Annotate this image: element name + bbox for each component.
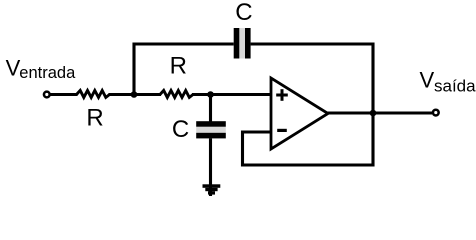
label Ventrada (6, 56, 76, 83)
svg-text:R: R (170, 53, 187, 80)
op-amp U1 (271, 78, 328, 149)
wire node A up (132, 43, 135, 95)
resistor R1 (77, 90, 110, 97)
pin plus (276, 89, 288, 101)
svg-text:R: R (86, 105, 103, 132)
node A junction dot (131, 91, 138, 98)
pin minus (277, 129, 287, 132)
wire right vertical (371, 43, 374, 167)
resistor R2 (160, 90, 193, 97)
wire top left to C1 (133, 42, 234, 45)
terminal input (44, 92, 50, 98)
wire inverting stub (241, 130, 270, 133)
ground (203, 184, 221, 194)
wire feedback bottom (241, 163, 375, 166)
wire C2 to ground (209, 138, 212, 196)
wire R2 to op-amp (192, 93, 270, 96)
wire C1 to right corner (251, 42, 375, 45)
wire node B down to C2 (209, 95, 212, 123)
label Vsaida (420, 68, 476, 96)
svg-text:V: V (420, 68, 435, 93)
capacitor C1 (234, 28, 251, 59)
svg-text:C: C (235, 0, 252, 26)
node B junction dot (207, 91, 214, 98)
capacitor C2 (196, 121, 226, 138)
wire R1 to R2 (109, 93, 162, 96)
svg-text:saída: saída (434, 76, 476, 95)
wire input to R1 (51, 93, 78, 96)
wire output (327, 111, 432, 114)
svg-text:C: C (172, 116, 189, 143)
wire inverting vertical (241, 131, 244, 167)
svg-text:entrada: entrada (19, 64, 76, 82)
node C junction dot (370, 110, 377, 117)
terminal output (433, 110, 439, 116)
